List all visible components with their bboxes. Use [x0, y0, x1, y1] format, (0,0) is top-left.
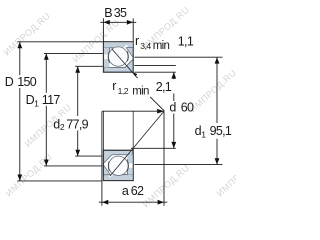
- outer ring raceway notch: [123, 45, 129, 49]
- svg-text:35: 35: [114, 6, 127, 20]
- contact angle line upper, ball segment: [112, 49, 138, 78]
- dimension d2: extension top: [75, 65, 103, 67]
- svg-text:1: 1: [34, 99, 39, 109]
- dimension d bore: chamfer line: [134, 64, 175, 66]
- cage mark left: [108, 52, 109, 62]
- outer ring band lower edge: [104, 47, 124, 49]
- dimension B: right arrow: [127, 20, 133, 25]
- dimension a: right arrow: [158, 200, 164, 205]
- dimension B: left arrow: [104, 20, 110, 25]
- svg-text:d: d: [169, 100, 176, 114]
- svg-text:3,4: 3,4: [140, 41, 151, 51]
- bore face line right: [132, 111, 134, 150]
- svg-text:D: D: [5, 75, 14, 89]
- svg-text:60: 60: [181, 100, 194, 114]
- dimension d bore: dimension line: [173, 72, 175, 79]
- dimension d1: extension top: [134, 56, 222, 58]
- svg-text:B: B: [104, 6, 112, 20]
- dimension d2: extension bottom: [75, 155, 102, 157]
- watermark tile group: [2, 4, 266, 209]
- svg-text:150: 150: [17, 75, 37, 89]
- pressure centre arrow: [157, 109, 164, 114]
- dimension d1: up arrow: [215, 57, 220, 63]
- svg-text:a: a: [122, 184, 129, 198]
- section box outline: [103, 42, 133, 72]
- dimension a: extension left: [101, 111, 103, 205]
- dimension D: extension top: [17, 41, 103, 43]
- dimension D1: down arrow: [44, 160, 49, 166]
- dimension D1: dimension line: [45, 53, 47, 92]
- svg-text:min: min: [132, 86, 149, 98]
- dimension d2: dimension line: [77, 66, 79, 116]
- svg-text:r: r: [112, 79, 116, 93]
- dimension a: dimension line: [99, 201, 168, 203]
- svg-text:77,9: 77,9: [66, 117, 88, 131]
- dimension d bore: up arrow: [171, 72, 176, 78]
- dimension B: dimension line: [100, 21, 136, 23]
- dimension a: left arrow: [102, 200, 108, 205]
- svg-text:min: min: [153, 40, 170, 52]
- svg-text:62: 62: [131, 184, 144, 198]
- shoulder column edge: [108, 48, 110, 63]
- dimension D1: extension top: [44, 52, 103, 54]
- dimension D1: up arrow: [44, 54, 49, 60]
- dimension a: extension right: [163, 111, 165, 205]
- r1,2 leader arrowhead: [133, 72, 137, 76]
- svg-text:2: 2: [60, 122, 65, 132]
- svg-text:117: 117: [42, 93, 61, 107]
- dimension B: extension lines: [102, 18, 104, 41]
- dimension d2: down arrow: [75, 150, 80, 156]
- svg-text:1,1: 1,1: [178, 34, 194, 48]
- outer ring top band: [104, 42, 133, 48]
- dimension d bore: down arrow: [171, 142, 176, 148]
- dimension d1: down arrow: [215, 158, 220, 164]
- dimension D: down arrow: [17, 175, 22, 181]
- inner ring body: [104, 59, 133, 71]
- svg-text:1: 1: [201, 130, 206, 140]
- svg-text:1,2: 1,2: [118, 86, 129, 96]
- dimension d2: up arrow: [75, 66, 80, 72]
- dimension d bore: extension bottom: [131, 147, 176, 149]
- svg-text:95,1: 95,1: [210, 124, 232, 138]
- inner ring left shoulder column: [104, 48, 109, 68]
- axis line: [102, 110, 159, 112]
- dimension d1: dimension line: [216, 57, 218, 123]
- contact angle line lower: [110, 111, 164, 176]
- bearing cross-section: top half: [103, 42, 133, 72]
- ball: [109, 47, 128, 66]
- dimension D: dimension line: [19, 42, 21, 75]
- dimension D: extension bottom: [17, 180, 102, 182]
- dimension d bore: extension top: [134, 71, 175, 73]
- bore face line left: [102, 111, 104, 150]
- svg-text:2,1: 2,1: [156, 80, 172, 94]
- bearing cross-section: bottom half (rotated copy): [103, 150, 133, 180]
- cage mark right: [127, 51, 128, 61]
- dimension d1: extension bottom: [134, 164, 222, 166]
- dimension D1: extension bottom: [44, 165, 102, 167]
- dimension D: up arrow: [17, 42, 22, 48]
- svg-text:r: r: [135, 34, 139, 48]
- ring gap notch: [104, 55, 108, 60]
- outer ring right wedge: [126, 48, 133, 58]
- contact angle line upper, pressure-centre segment: [150, 97, 164, 111]
